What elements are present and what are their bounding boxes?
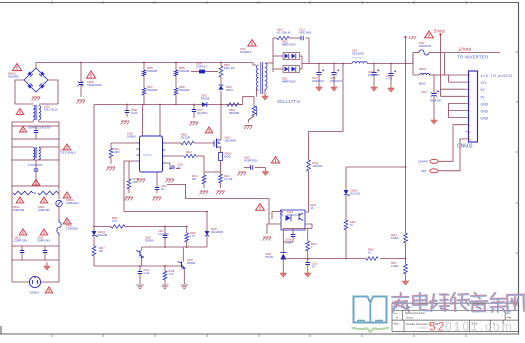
svg-text:ONOFF: ONOFF: [419, 159, 429, 163]
svg-text:0.5_2W: 0.5_2W: [224, 178, 233, 181]
svg-text:R623: R623: [311, 244, 317, 246]
svg-text:24Z/12W: 24Z/12W: [313, 165, 323, 168]
varistor NR601: [56, 193, 62, 219]
label R625: [368, 249, 374, 255]
svg-text:220PF/2KV: 220PF/2KV: [14, 239, 28, 243]
label R606: [147, 67, 158, 73]
label C610: [161, 185, 167, 191]
node ADJ: [421, 169, 438, 173]
label C615: [330, 78, 343, 83]
svg-text:CN602: CN602: [457, 144, 473, 150]
label D611: [282, 78, 296, 84]
label NR601: [66, 198, 79, 205]
wire opto out bottom: [305, 224, 312, 229]
label C618: [286, 240, 292, 245]
wire L604 to ground: [248, 116, 254, 123]
label D606: [196, 63, 207, 69]
ground arrow R627: [402, 277, 409, 285]
capacitor C614: [316, 64, 324, 85]
warning triangle IC602: [256, 204, 265, 211]
choke L602: [12, 104, 59, 126]
capacitor C612: [138, 266, 143, 284]
label IC602: [287, 212, 302, 217]
label FB603: [225, 153, 233, 159]
resistor R605: [174, 63, 178, 89]
label CON601: [29, 291, 40, 295]
watermark url: [419, 320, 514, 334]
choke L601: [12, 147, 59, 160]
svg-text:C617: C617: [386, 76, 392, 78]
svg-text:22uF/50V: 22uF/50V: [197, 112, 208, 115]
svg-text:RL22GB: RL22GB: [98, 234, 108, 237]
AC inlet CON601: [12, 260, 59, 288]
resistor R615: [127, 161, 131, 193]
wire bridge left leg: [15, 80, 24, 104]
label BD601: [8, 72, 19, 79]
wire rect snubber top: [273, 37, 277, 39]
warning triangle C604A: [19, 127, 26, 133]
ground arrow C616A: [371, 84, 378, 91]
title block: [392, 303, 519, 331]
wire right rail low: [58, 236, 60, 246]
wire 12V to pins: [445, 75, 466, 82]
capacitor C620: [431, 75, 440, 117]
ground chassis C607a: [190, 122, 199, 126]
capacitor C602Y: [43, 246, 48, 260]
node pin7 label: [481, 117, 489, 121]
svg-text:NC: NC: [178, 167, 182, 170]
warning triangle C602Y: [40, 229, 48, 235]
svg-text:FB602: FB602: [419, 68, 427, 71]
inductor L604 aux: [252, 106, 257, 116]
svg-text:www.: www.: [419, 325, 429, 330]
svg-text:MBRF20100: MBRF20100: [282, 81, 296, 84]
svg-text:1M6120R: 1M6120R: [179, 70, 190, 73]
resistor R606: [142, 63, 146, 89]
svg-text:1K: 1K: [368, 252, 371, 255]
svg-text:20K: 20K: [192, 178, 197, 181]
svg-text:RL21GB: RL21GB: [351, 193, 361, 196]
node pin3 label: [481, 88, 486, 92]
svg-text:5Vout: 5Vout: [434, 29, 446, 34]
svg-text:IC602: IC602: [287, 212, 294, 214]
warning triangle C605: [86, 71, 95, 78]
resistor R626: [344, 220, 348, 259]
svg-text:A: A: [396, 316, 398, 320]
wire 5V to pins: [441, 53, 466, 97]
svg-text:1M6120R: 1M6120R: [179, 89, 190, 92]
label R608: [179, 86, 190, 92]
label C602Y: [37, 236, 51, 243]
svg-text:SG6841: SG6841: [143, 154, 152, 157]
svg-text:R612: R612: [186, 151, 192, 154]
ferrite bead FB603: [219, 153, 223, 161]
capacitor C601Y: [20, 246, 25, 260]
svg-text:1M6120R: 1M6120R: [147, 70, 158, 73]
wire C605 to ground: [80, 85, 82, 97]
node pin2 label: [481, 81, 488, 85]
svg-text:2N3904: 2N3904: [187, 262, 196, 265]
warning triangle BD601: [12, 64, 21, 71]
svg-text:12V: 12V: [481, 81, 488, 85]
label F601: [66, 224, 78, 231]
label C608: [131, 109, 138, 115]
capacitor C605: [78, 81, 84, 87]
label R624: [391, 234, 399, 240]
ground arrow Y-caps: [44, 262, 51, 270]
svg-text:0.47uF/275V: 0.47uF/275V: [28, 164, 43, 167]
wire opto in top: [272, 212, 281, 220]
wire rail drop: [309, 64, 344, 161]
svg-text:1M6120R: 1M6120R: [38, 208, 49, 212]
svg-text:C616A: C616A: [368, 71, 375, 74]
svg-text:1M6120R: 1M6120R: [147, 89, 158, 92]
transistor Q603: [178, 247, 186, 284]
label R615: [133, 178, 139, 184]
label R618: [190, 232, 196, 238]
svg-text:SCLL17T-S: SCLL17T-S: [277, 99, 300, 104]
svg-text:NC: NC: [312, 267, 316, 269]
label R623: [311, 244, 317, 249]
resistor R623: [306, 229, 310, 263]
svg-text:2200UF16V: 2200UF16V: [312, 81, 325, 83]
label Q602: [145, 237, 154, 243]
label F602: [419, 42, 431, 48]
label R609: [181, 134, 190, 140]
capacitor C613: [301, 36, 309, 41]
capacitor C610: [155, 172, 160, 193]
label R627: [391, 262, 399, 268]
label C612: [144, 269, 151, 275]
node 5Vout: [434, 29, 446, 36]
optocoupler IC602: [280, 210, 305, 230]
ground chassis below bridge: [32, 97, 41, 101]
capacitor C640: [166, 163, 181, 169]
wire Q601 drain column: [220, 105, 222, 141]
node pin6 label: [481, 110, 489, 114]
label ZD601: [98, 231, 108, 237]
resistor R613: [202, 172, 206, 188]
ground arrow C619: [304, 269, 311, 277]
resistor R624: [404, 233, 408, 259]
svg-text:TO INVERTER: TO INVERTER: [457, 55, 488, 60]
label R613: [192, 175, 198, 181]
op-amp U IC601 body: [137, 136, 166, 172]
resistor R609 gate: [166, 141, 215, 145]
label C614: [312, 78, 325, 83]
svg-text:GND: GND: [481, 117, 489, 121]
capacitor C615: [331, 64, 339, 85]
wire bus drop to IC pin a: [142, 105, 144, 137]
ground arrow secondary: [262, 92, 269, 100]
svg-text:5R0120B: 5R0120B: [229, 112, 239, 115]
wire IC pin1 to R611: [111, 142, 137, 144]
ground chassis R613: [200, 191, 209, 195]
warning triangle CON601: [45, 287, 53, 293]
svg-text:07D5A2S4: 07D5A2S4: [66, 201, 79, 205]
label R607: [147, 86, 158, 92]
label R612: [186, 151, 192, 154]
svg-text:2.49KF: 2.49KF: [391, 265, 399, 268]
svg-text:12V: 12V: [409, 35, 417, 40]
svg-text:152P/1KV: 152P/1KV: [196, 66, 207, 69]
svg-text:P6150E: P6150E: [201, 98, 210, 101]
diode D606: [191, 70, 218, 74]
capacitor C618: [283, 229, 295, 243]
wire TL431 top bus: [283, 228, 312, 230]
svg-text:Document Number: Document Number: [405, 312, 425, 315]
wire latch bus D: [94, 265, 183, 267]
svg-text:C609: C609: [244, 158, 250, 160]
diode D602: [202, 102, 207, 107]
resistor R622: [305, 211, 309, 213]
svg-text:TSL17AL01: TSL17AL01: [44, 108, 58, 112]
label C601Y: [14, 236, 28, 243]
svg-text:AT_YDM_M: AT_YDM_M: [277, 32, 290, 35]
capacitor C604 box: [12, 160, 59, 186]
wire bridge right leg: [48, 80, 58, 104]
label R622: [311, 205, 317, 210]
resistor R625: [346, 257, 406, 261]
label C605: [87, 80, 102, 87]
svg-text:24KF: 24KF: [114, 151, 120, 154]
svg-text:0.1uF/50V: 0.1uF/50V: [158, 233, 169, 236]
svg-text:CON601: CON601: [29, 291, 40, 295]
label IC601: [127, 133, 136, 139]
warning triangle T601: [248, 40, 256, 47]
wire snubber mid: [289, 37, 301, 39]
svg-text:2N3904: 2N3904: [145, 240, 154, 243]
svg-text:5V: 5V: [481, 88, 486, 92]
label ZD602: [351, 190, 361, 196]
label C619: [312, 264, 318, 269]
bridge rectifier BD601: [24, 63, 48, 93]
wire rail to transformer pin: [253, 63, 256, 66]
wire 12V sense vertical: [405, 64, 407, 234]
svg-text:530K_2W: 530K_2W: [224, 67, 235, 70]
transistor Q601: [214, 139, 221, 149]
svg-text:5V: 5V: [481, 95, 486, 99]
label L603: [352, 50, 365, 60]
label Q603: [187, 259, 196, 265]
node schematic title: [277, 99, 300, 104]
svg-text:RADIATOR: RADIATOR: [419, 45, 431, 48]
zener ZD602: [344, 167, 350, 220]
resistor R627: [404, 259, 408, 277]
wire FB bus E: [283, 258, 346, 260]
label R616: [112, 217, 118, 223]
wire FB603 to sense: [220, 161, 222, 175]
resistor R614: [219, 174, 223, 188]
wire Y-cap lower rung: [12, 246, 59, 260]
label R611: [114, 148, 120, 154]
label C604: [28, 164, 43, 167]
wire HV- main bus: [94, 104, 243, 106]
label R626: [350, 221, 356, 227]
label C640: [178, 164, 184, 170]
svg-text:1N4148WS: 1N4148WS: [211, 231, 224, 234]
warning triangle R601A: [13, 197, 24, 212]
warning triangle C601Y: [19, 229, 27, 235]
svg-text:PQ2620.5: PQ2620.5: [240, 51, 252, 54]
svg-text:2.5A/250V: 2.5A/250V: [66, 227, 78, 231]
label C620: [421, 91, 442, 103]
svg-text:55/120R: 55/120R: [181, 137, 190, 140]
ground iec Q603: [181, 285, 188, 289]
label R603: [224, 64, 235, 70]
label D609: [211, 228, 224, 234]
ground chassis R615: [125, 197, 134, 201]
label C613: [299, 29, 312, 35]
resistor R612: [166, 154, 205, 172]
wire secondary bottom: [265, 90, 266, 92]
wire GND to pins: [449, 103, 466, 117]
svg-text:MBRF20100: MBRF20100: [282, 44, 296, 47]
wire TL431 drop: [282, 229, 284, 253]
fuse F601: [57, 219, 61, 236]
svg-text:R622: R622: [311, 205, 317, 207]
wire drain sense: [167, 185, 269, 225]
wire ADJ to pin10: [438, 139, 465, 171]
capacitor C608: [125, 105, 130, 118]
warning triangle Q601: [205, 127, 213, 133]
ground chassis IC right: [166, 179, 175, 183]
transistor Q602: [136, 247, 144, 266]
label R605: [179, 67, 190, 73]
svg-text:470UF/16V: 470UF/16V: [368, 75, 380, 77]
watermark book icon: [352, 297, 390, 332]
ground chassis opto: [263, 237, 272, 241]
warning triangle NR601: [63, 192, 71, 198]
wire latch bus C: [142, 246, 207, 248]
wire left rail low: [11, 193, 13, 246]
svg-text:PC-123YC-8Y: PC-123YC-8Y: [287, 215, 302, 217]
node pin4 label: [481, 95, 486, 99]
svg-text:12V TO AUDIO: 12V TO AUDIO: [481, 73, 513, 78]
label L602: [44, 105, 58, 112]
capacitor C609: [238, 165, 266, 175]
resistor R616: [94, 225, 133, 229]
svg-text:FR107: FR107: [226, 89, 234, 92]
wire 12V rail: [309, 63, 352, 65]
label C611: [158, 230, 169, 236]
inductor L603: [352, 62, 406, 64]
svg-text:C619: C619: [312, 264, 318, 266]
svg-text:2200UF16V: 2200UF16V: [330, 81, 343, 83]
shunt ref IC603: [280, 253, 286, 269]
svg-text:0.1uF: 0.1uF: [286, 243, 292, 245]
svg-text:52: 52: [429, 320, 446, 334]
resistor R601B: [38, 186, 59, 195]
resistor R604: [227, 103, 243, 107]
capacitor C617: [388, 64, 396, 86]
label R617: [99, 247, 105, 253]
svg-text:4.7K: 4.7K: [190, 235, 195, 238]
label R614: [224, 175, 233, 181]
wire opto in bottom: [267, 224, 281, 234]
ground chassis T601 aux: [244, 126, 253, 130]
capacitor C611: [163, 227, 168, 248]
warning triangle L601: [63, 144, 71, 150]
ground arrow C609: [262, 168, 269, 176]
wire bus drop to IC pin b: [159, 105, 161, 137]
ground chassis R614: [216, 191, 225, 195]
label CN602: [457, 144, 473, 150]
resistor R603: [219, 63, 223, 85]
wire secondary top: [266, 62, 273, 64]
svg-text:220PF/2KV: 220PF/2KV: [37, 239, 51, 243]
label R604: [229, 109, 239, 115]
warning triangle F601: [63, 218, 71, 224]
svg-text:SG6841: SG6841: [127, 136, 136, 139]
label R621: [313, 162, 323, 168]
wire 5V vertical: [440, 35, 442, 53]
resistor R620: [277, 36, 289, 40]
wire rect box left: [272, 38, 274, 72]
wire right rail mid: [58, 139, 60, 160]
warning triangle C604: [32, 180, 39, 186]
svg-text:4700PF250V: 4700PF250V: [244, 161, 258, 163]
svg-text:GND: GND: [481, 102, 489, 106]
warning triangle F602: [425, 31, 434, 38]
label D601: [226, 86, 234, 92]
label R619: [169, 270, 175, 276]
wire junction dots: [80, 62, 406, 267]
wire Y-cap rung: [12, 245, 59, 247]
resistor R618: [185, 227, 189, 248]
svg-text:CB-2012P1: CB-2012P1: [352, 53, 365, 56]
ground arrow C614: [316, 84, 323, 91]
svg-text:0101.com: 0101.com: [445, 320, 514, 334]
label T601: [240, 48, 252, 54]
svg-text:2WL06RM: 2WL06RM: [225, 140, 236, 143]
svg-text:ADJ: ADJ: [421, 169, 427, 173]
wire ONOFF to pin8: [438, 125, 465, 162]
capacitor C616A: [371, 64, 379, 85]
wire FB bus A: [124, 211, 207, 213]
wire fuse loop: [406, 53, 445, 76]
wire left rail mid: [11, 139, 13, 160]
svg-text:<Doc>: <Doc>: [406, 316, 414, 320]
svg-text:1M6120R: 1M6120R: [13, 208, 24, 212]
resistor R617: [92, 246, 96, 258]
capacitor C604A box: [12, 126, 59, 139]
label C604A: [28, 127, 51, 130]
wire latch drop: [206, 212, 208, 232]
svg-text:4.7UF: 4.7UF: [386, 79, 393, 81]
ground chassis R611: [107, 167, 116, 171]
resistor R611: [109, 143, 113, 164]
wire primary bottom stub: [255, 90, 257, 97]
svg-text:560UF/16V: 560UF/16V: [430, 101, 442, 103]
ground iec R619: [161, 285, 168, 289]
svg-text:C604A 0.22uF/275V: C604A 0.22uF/275V: [28, 127, 51, 130]
wire 12Vout line: [445, 52, 501, 54]
wire ZD601 chain bottom: [93, 258, 95, 266]
warning triangle R601B: [38, 197, 49, 212]
wire aux jog: [243, 97, 254, 106]
transformer T601: [256, 62, 267, 94]
diode pair D610: [273, 53, 302, 60]
label C616A: [368, 71, 380, 77]
warning triangle C609: [271, 157, 279, 164]
diode D609: [205, 231, 210, 247]
svg-text:HTL431: HTL431: [265, 256, 274, 259]
resistor R608: [174, 88, 178, 105]
ferrite bead FB602: [419, 68, 430, 86]
svg-text:C618: C618: [286, 240, 292, 242]
wire Q601 source: [220, 147, 223, 153]
